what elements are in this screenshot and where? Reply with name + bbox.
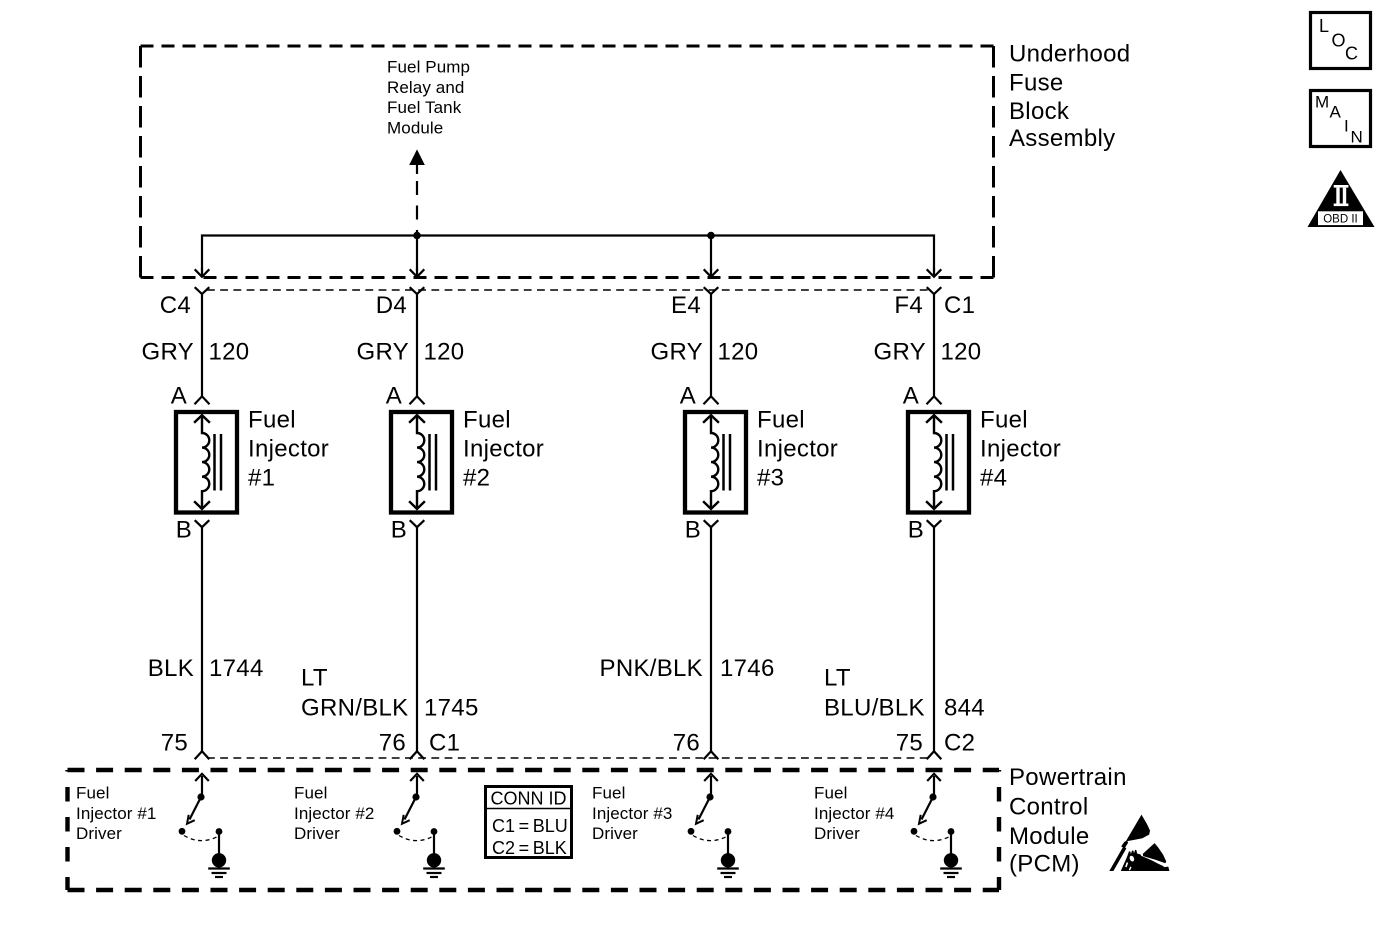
svg-text:F4: F4 [894, 292, 923, 319]
svg-text:Relay and: Relay and [387, 78, 464, 97]
pcm connector symbol, wire 3 [704, 751, 719, 759]
svg-text:LT: LT [824, 665, 851, 692]
svg-text:Control: Control [1009, 794, 1088, 821]
svg-text:Fuel: Fuel [76, 784, 109, 803]
wire segment to injector 3 [710, 294, 712, 396]
svg-text:C1: C1 [944, 292, 975, 319]
female connector Y, top of wire 4 [927, 287, 942, 294]
ground, driver #3 [717, 869, 739, 878]
svg-text:CONN ID: CONN ID [491, 789, 567, 809]
wire from injector 4 to PCM [933, 527, 935, 751]
svg-text:GRY: GRY [874, 339, 926, 366]
svg-text:GRY: GRY [651, 339, 703, 366]
svg-text:M: M [1315, 93, 1329, 112]
svg-text:A: A [386, 383, 402, 410]
svg-text:Powertrain: Powertrain [1009, 764, 1127, 791]
svg-text:Fuel: Fuel [980, 407, 1028, 434]
svg-text:Module: Module [387, 118, 443, 137]
fuel injector #4 driver switch [911, 774, 959, 868]
svg-text:(PCM): (PCM) [1009, 851, 1080, 878]
ground, driver #1 [208, 869, 230, 878]
svg-text:Fuse: Fuse [1009, 69, 1064, 96]
arrow into fuse block bottom, wire 2 [410, 269, 425, 277]
svg-text:Fuel Pump: Fuel Pump [387, 58, 470, 77]
svg-text:Injector: Injector [757, 436, 838, 463]
svg-text:B: B [391, 517, 407, 544]
svg-text:GRN/BLK: GRN/BLK [301, 695, 408, 722]
female connector Y, top of wire 2 [410, 287, 425, 294]
connector at pin B, injector 1 [195, 520, 210, 527]
svg-text:C2: C2 [944, 730, 975, 757]
arrow into fuse block bottom, wire 1 [195, 269, 210, 277]
connector at pin B, injector 4 [927, 520, 942, 527]
svg-text:Injector: Injector [980, 436, 1061, 463]
svg-text:120: 120 [209, 339, 250, 366]
svg-text:C4: C4 [160, 292, 191, 319]
svg-text:E4: E4 [671, 292, 701, 319]
svg-text:L: L [1319, 16, 1329, 36]
svg-text:Fuel: Fuel [592, 784, 625, 803]
svg-text:Fuel: Fuel [757, 407, 805, 434]
connector dashed line (top, fuse block connector) [207, 289, 930, 291]
connector dashed line (bottom, pcm connector) [207, 757, 930, 759]
svg-text:Fuel: Fuel [248, 407, 296, 434]
wire from injector 1 to PCM [201, 527, 203, 751]
female connector Y, top of wire 1 [195, 287, 210, 294]
connector at pin A, injector 2 [410, 396, 425, 404]
esd sensitivity symbol [1109, 815, 1169, 871]
pcm connector symbol, wire 2 [410, 751, 425, 759]
svg-text:75: 75 [161, 730, 188, 757]
svg-text:76: 76 [379, 730, 406, 757]
svg-text:Injector #3: Injector #3 [592, 804, 672, 823]
svg-text:A: A [171, 383, 187, 410]
fuel injector #1 driver switch [179, 774, 227, 868]
svg-text:D4: D4 [376, 292, 407, 319]
fuel injector #1 box [176, 412, 237, 513]
svg-text:BLK: BLK [148, 655, 194, 682]
underhood fuse block assembly box [141, 45, 994, 48]
arrow into fuse block bottom, wire 4 [927, 269, 942, 277]
svg-text:C1 = BLU: C1 = BLU [492, 816, 568, 836]
svg-text:Underhood: Underhood [1009, 41, 1130, 68]
ground, driver #2 [423, 869, 445, 878]
svg-text:Driver: Driver [814, 824, 860, 843]
svg-text:C: C [1345, 44, 1358, 64]
fuel injector #2 driver label [294, 784, 374, 844]
label: Underhood Fuse Block Assembly [1009, 41, 1130, 153]
svg-text:120: 120 [718, 339, 759, 366]
pcm connector symbol, wire 4 [927, 751, 942, 759]
fuel injector #2 driver switch [394, 774, 442, 868]
connector at pin A, injector 1 [195, 396, 210, 404]
junction dot E4 [707, 232, 715, 240]
svg-text:120: 120 [424, 339, 465, 366]
fuel injector #2 box [391, 412, 452, 513]
svg-text:B: B [176, 517, 192, 544]
svg-text:Injector #1: Injector #1 [76, 804, 156, 823]
MAIN symbol box [1311, 91, 1371, 147]
svg-text:C1: C1 [429, 730, 460, 757]
svg-text:75: 75 [896, 730, 923, 757]
fuel injector #3 driver label [592, 784, 672, 844]
svg-text:Fuel: Fuel [814, 784, 847, 803]
svg-text:A: A [1330, 103, 1342, 122]
svg-text:Injector: Injector [463, 436, 544, 463]
svg-text:Module: Module [1009, 823, 1090, 850]
fuel injector #4 box [908, 412, 969, 513]
svg-text:O: O [1332, 31, 1346, 51]
svg-text:A: A [903, 383, 919, 410]
wire segment to injector 4 [933, 294, 935, 396]
svg-text:76: 76 [673, 730, 700, 757]
connector at pin A, injector 4 [927, 396, 942, 404]
svg-text:Fuel: Fuel [463, 407, 511, 434]
OBD II symbol [1308, 170, 1375, 227]
female connector Y, top of wire 3 [704, 287, 719, 294]
powertrain control module box [68, 768, 1000, 772]
svg-text:Fuel Tank: Fuel Tank [387, 98, 462, 117]
pcm connector symbol, wire 1 [195, 751, 210, 759]
svg-text:Fuel: Fuel [294, 784, 327, 803]
svg-text:1746: 1746 [720, 655, 775, 682]
connector at pin B, injector 2 [410, 520, 425, 527]
svg-text:844: 844 [944, 695, 985, 722]
svg-text:Assembly: Assembly [1009, 125, 1115, 152]
LOC symbol box [1311, 13, 1371, 69]
svg-text:1744: 1744 [209, 655, 264, 682]
ground, driver #4 [940, 869, 962, 878]
svg-text:BLU/BLK: BLU/BLK [824, 695, 925, 722]
svg-text:B: B [685, 517, 701, 544]
arrow into fuse block bottom, wire 3 [704, 269, 719, 277]
svg-text:#1: #1 [248, 465, 275, 492]
svg-text:N: N [1351, 128, 1363, 147]
label: Powertrain Control Module (PCM) [1009, 764, 1127, 878]
wire segment to injector 2 [416, 294, 418, 396]
svg-text:LT: LT [301, 665, 328, 692]
fuel injector #3 box [685, 412, 746, 513]
svg-text:1745: 1745 [424, 695, 479, 722]
svg-text:PNK/BLK: PNK/BLK [600, 655, 703, 682]
wire from injector 3 to PCM [710, 527, 712, 751]
svg-text:C2 = BLK: C2 = BLK [492, 838, 567, 858]
connector at pin B, injector 3 [704, 520, 719, 527]
fuel injector #1 driver label [76, 784, 156, 844]
wire segment to injector 1 [201, 294, 203, 396]
svg-text:120: 120 [941, 339, 982, 366]
svg-text:B: B [908, 517, 924, 544]
svg-text:A: A [680, 383, 696, 410]
svg-text:Injector #2: Injector #2 [294, 804, 374, 823]
fuel injector #3 driver switch [688, 774, 736, 868]
wire drop D4 [416, 236, 418, 271]
svg-text:#4: #4 [980, 465, 1007, 492]
fuel injector #4 driver label [814, 784, 894, 844]
svg-text:Driver: Driver [592, 824, 638, 843]
wire drop E4 [710, 236, 712, 271]
svg-text:Injector #4: Injector #4 [814, 804, 894, 823]
svg-text:GRY: GRY [142, 339, 194, 366]
svg-text:Injector: Injector [248, 436, 329, 463]
svg-text:GRY: GRY [357, 339, 409, 366]
svg-text:Driver: Driver [76, 824, 122, 843]
svg-text:I: I [1344, 117, 1349, 136]
label: Fuel Injector #4 [980, 407, 1061, 492]
connector at pin A, injector 3 [704, 396, 719, 404]
svg-text:#2: #2 [463, 465, 490, 492]
junction dot D4 [413, 232, 421, 240]
conn id table [484, 787, 573, 859]
label: Fuel Injector #2 [463, 407, 544, 492]
svg-text:#3: #3 [757, 465, 784, 492]
bus wire from C4 to F4 [202, 236, 934, 271]
svg-text:Block: Block [1009, 98, 1070, 125]
svg-text:OBD II: OBD II [1323, 213, 1358, 225]
label: Fuel Injector #1 [248, 407, 329, 492]
svg-text:Driver: Driver [294, 824, 340, 843]
wire from injector 2 to PCM [416, 527, 418, 751]
label: Fuel Injector #3 [757, 407, 838, 492]
dashed wire to fuel pump relay, arrow up [410, 151, 424, 236]
label: Fuel Pump Relay and Fuel Tank Module [387, 58, 470, 138]
